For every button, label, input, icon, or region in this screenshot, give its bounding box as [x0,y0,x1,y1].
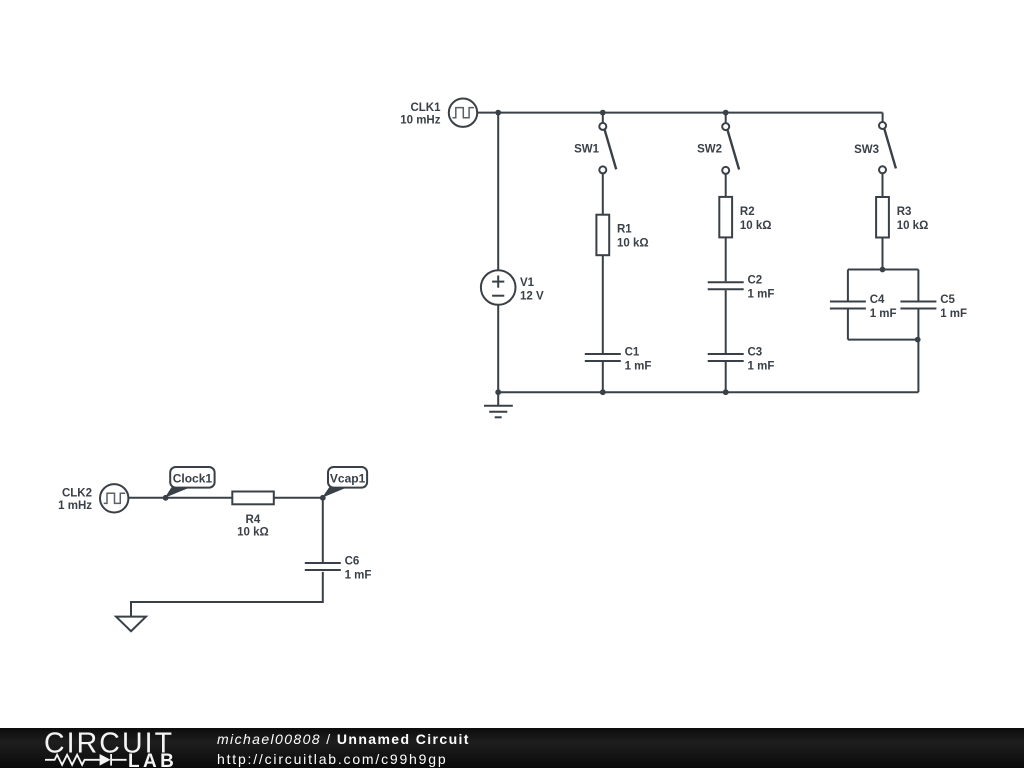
svg-text:SW3: SW3 [854,144,879,156]
wire R4 to Vcap1 node [274,497,323,499]
flag Clock1 [165,467,215,498]
wire R1 to C1 [602,255,604,353]
svg-text:michael00808 / Unnamed Circuit: michael00808 / Unnamed Circuit [217,731,470,747]
svg-text:10 mHz: 10 mHz [400,115,441,127]
wire box bottom [848,339,919,341]
wire C2 to C3 [725,290,727,353]
wire bottom rail [498,391,918,393]
svg-text:C3: C3 [748,346,763,358]
wire CLK2 to R4 [128,497,232,499]
svg-text:http://circuitlab.com/c99h9gp: http://circuitlab.com/c99h9gp [217,751,447,767]
svg-text:12 V: 12 V [520,291,544,303]
svg-text:R3: R3 [897,206,912,218]
wire SW1 to R1 [602,173,604,214]
node junction R3 to box [880,267,886,273]
node junction on top rail at SW1 [600,110,606,116]
node Vcap1 junction [320,495,326,501]
resistor R3 [876,197,889,238]
svg-text:1 mF: 1 mF [748,360,775,372]
svg-text:1 mF: 1 mF [870,308,897,320]
svg-text:10 kΩ: 10 kΩ [897,220,929,232]
svg-text:C1: C1 [625,346,640,358]
wire SW3 to R3 [882,173,884,197]
capacitor C5 [900,302,936,309]
wire box left upper (to C4) [847,270,849,301]
wire C3 to rail [725,362,727,392]
svg-text:V1: V1 [520,277,535,289]
svg-text:1 mF: 1 mF [748,289,775,301]
svg-text:CLK2: CLK2 [62,488,92,500]
wire SW3 drop from rail corner [882,113,884,122]
wire box right upper (to C5) [917,270,919,301]
wire box to bottom rail [917,340,919,393]
switch SW2 [722,123,739,174]
wire Vcap1 node down to C6 [322,498,324,563]
node Clock1 junction [163,495,169,501]
svg-text:LAB: LAB [128,751,177,768]
svg-text:SW1: SW1 [574,144,600,156]
svg-text:R1: R1 [617,224,632,236]
wire V1 branch top [497,113,499,271]
clock source CLK2 [100,484,128,512]
wire box right lower (C5 to bottom) [917,309,919,339]
svg-text:1 mF: 1 mF [625,360,652,372]
resistor R1 [596,215,609,256]
wire box top [848,269,919,271]
wire SW2 to R2 [725,174,727,197]
capacitor C1 [585,354,621,361]
svg-text:C4: C4 [870,294,885,306]
node junction bottom rail at C3 [723,389,729,395]
node junction on top rail at V1 [495,110,501,116]
capacitor C2 [708,282,744,289]
resistor R4 [232,492,273,505]
svg-text:R4: R4 [246,514,261,526]
switch SW3 [879,122,896,173]
node junction on top rail at SW2 [723,110,729,116]
switch SW1 [599,123,616,173]
svg-text:R2: R2 [740,206,755,218]
svg-text:C6: C6 [345,556,360,568]
capacitor C6 [305,563,341,570]
wire C6 to corner [131,572,323,617]
resistor R2 [719,197,732,238]
wire SW1 stub [602,113,604,123]
wire R3 to box node [882,237,884,269]
capacitor C4 [830,302,866,309]
ground triangle (CLK2 circuit) [116,617,146,632]
svg-text:SW2: SW2 [697,144,722,156]
wire top rail [477,112,882,114]
svg-text:C2: C2 [748,275,763,287]
svg-text:1 mF: 1 mF [940,308,967,320]
wire R2 to C2 [725,237,727,281]
node junction box bottom right [915,337,921,343]
ground main [484,392,513,417]
flag Vcap1 [322,467,367,498]
node junction bottom rail at C1 [600,389,606,395]
wire C1 to rail [602,362,604,392]
capacitor C3 [708,354,744,361]
svg-text:C5: C5 [940,294,955,306]
clock source CLK1 [449,99,477,127]
svg-text:10 kΩ: 10 kΩ [617,238,649,250]
svg-text:CLK1: CLK1 [410,102,441,114]
svg-text:10 kΩ: 10 kΩ [740,220,772,232]
svg-text:Clock1: Clock1 [173,471,213,485]
node junction bottom rail at V1/ground [495,389,501,395]
svg-text:10 kΩ: 10 kΩ [237,527,269,539]
svg-text:Vcap1: Vcap1 [330,471,366,485]
voltage source V1 [481,270,516,305]
wire box left lower (C4 to bottom) [847,309,849,339]
wire V1 bottom to rail [497,305,499,392]
svg-text:1 mHz: 1 mHz [58,500,92,512]
wire SW2 stub [725,113,727,124]
svg-text:1 mF: 1 mF [345,569,372,581]
logo resistor-diode glyph [45,754,127,766]
